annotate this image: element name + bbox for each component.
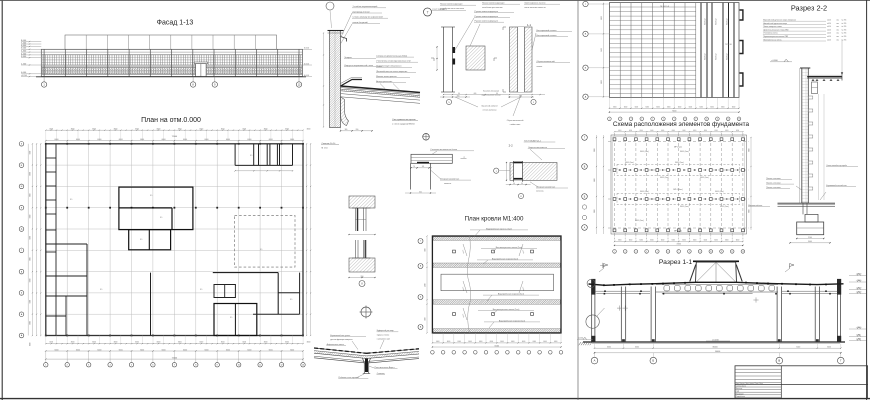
- svg-text:План на отм.0.000: План на отм.0.000: [141, 117, 201, 124]
- svg-text:8.5: 8.5: [230, 317, 232, 319]
- detail 1-1 leader labels: [536, 31, 572, 33]
- svg-text:Стяжка из цементного р-ра 30мм: Стяжка из цементного р-ра 30мм: [376, 56, 407, 58]
- svg-text:8.5: 8.5: [140, 239, 142, 241]
- svg-text:6000: 6000: [635, 347, 639, 349]
- section 1-1 monitor base line: [696, 281, 737, 283]
- svg-text:6000: 6000: [827, 347, 831, 349]
- svg-text:6000: 6000: [183, 349, 187, 351]
- svg-text:0.000: 0.000: [21, 72, 27, 74]
- svg-text:13: 13: [302, 365, 304, 367]
- detail 7 column: [443, 27, 445, 92]
- floor plan interior column marks: [45, 143, 47, 145]
- section 1-1 ground line: [583, 341, 845, 343]
- svg-text:9: 9: [217, 365, 218, 367]
- svg-text:Панель стеновая: Панель стеновая: [766, 182, 780, 184]
- svg-text:0.000: 0.000: [856, 335, 861, 337]
- svg-text:6000: 6000: [119, 139, 123, 141]
- svg-text:6000: 6000: [736, 240, 740, 242]
- svg-text:600: 600: [474, 93, 477, 95]
- section 1-1 columns: [620, 287, 622, 343]
- facade window band frame lines: [42, 54, 302, 56]
- section 1-1 grid bubbles: [594, 353, 596, 357]
- svg-text:7: 7: [174, 365, 175, 367]
- foundation plan sub-axis bubbles: [582, 205, 586, 209]
- svg-text:6000: 6000: [640, 130, 643, 132]
- foundation plan horizontal dashed grid: [608, 141, 749, 143]
- svg-text:6000: 6000: [140, 349, 144, 351]
- svg-text:6000: 6000: [736, 130, 739, 132]
- title block main divider: [735, 383, 868, 385]
- section 2-2 foundation steps: [805, 214, 818, 222]
- facade upper window band mullions: [42, 55, 44, 66]
- svg-text:-0.150: -0.150: [21, 75, 28, 77]
- roof plan break line: [467, 236, 471, 333]
- roof plan left dimension: [426, 236, 428, 333]
- title block lower rows: [735, 386, 781, 388]
- svg-text:6000: 6000: [183, 139, 187, 141]
- detail 7 corner symbols: [431, 58, 434, 61]
- svg-text:Несгораемый панели: Несгораемый панели: [537, 34, 557, 37]
- detail 8 dimension: [411, 167, 432, 169]
- svg-text:6000: 6000: [290, 349, 294, 351]
- svg-text:Водоприемные воронки (1шт): Водоприемные воронки (1шт): [499, 320, 526, 322]
- section 2-2 roof slab: [807, 74, 842, 76]
- svg-text:6000: 6000: [672, 240, 676, 242]
- svg-text:6000: 6000: [269, 139, 273, 141]
- svg-text:-0.150: -0.150: [578, 338, 583, 340]
- svg-text:6000: 6000: [710, 106, 714, 108]
- svg-text:ФМ-1 (3шт): ФМ-1 (3шт): [635, 219, 644, 222]
- svg-text:3000: 3000: [808, 241, 812, 243]
- svg-text:990: 990: [361, 276, 364, 278]
- svg-text:72000: 72000: [672, 110, 677, 112]
- svg-text:стойки тоже: стойки тоже: [510, 123, 521, 126]
- svg-text:6000: 6000: [714, 240, 718, 242]
- floor plan bottom mid partition wall: [150, 273, 152, 336]
- svg-text:3000: 3000: [157, 129, 161, 131]
- section 2-2 wall rungs: [808, 96, 813, 99]
- svg-text:Опорная монолитная: Опорная монолитная: [536, 186, 555, 188]
- svg-text:4.200: 4.200: [21, 53, 27, 55]
- svg-text:ФМ-1 (3шт): ФМ-1 (3шт): [700, 176, 709, 179]
- svg-text:2100: 2100: [808, 237, 812, 239]
- svg-text:Плита наварная стяжка: Плита наварная стяжка: [763, 26, 782, 28]
- svg-text:1-1: 1-1: [527, 23, 531, 27]
- svg-text:Смесь машбет-центробк: Смесь машбет-центробк: [826, 165, 847, 167]
- sheet border frame top: [0, 0, 870, 2]
- detail 1-1 bottom dim: [508, 96, 534, 98]
- svg-text:Опорная монолитная: Опорная монолитная: [440, 179, 459, 181]
- svg-text:72000: 72000: [494, 345, 499, 347]
- svg-text:3000: 3000: [92, 129, 96, 131]
- svg-text:6000: 6000: [650, 130, 653, 132]
- svg-text:Пароизоляционная пленка ПВХ: Пароизоляционная пленка ПВХ: [763, 36, 789, 38]
- svg-text:Засыпка песчаная: Засыпка песчаная: [483, 90, 499, 92]
- svg-text:6000: 6000: [119, 349, 123, 351]
- svg-text:Рабочая сталь горячая: Рабочая сталь горячая: [339, 377, 359, 379]
- top strip label block 3: [524, 3, 560, 5]
- roof plan labels: [470, 229, 528, 231]
- svg-text:Опорная монолитная: Опорная монолитная: [528, 147, 547, 149]
- floor plan central room block: [119, 187, 193, 230]
- detail 7 dimensions: [440, 96, 470, 98]
- svg-text:6000: 6000: [693, 240, 697, 242]
- svg-text:смеси битумной: смеси битумной: [353, 21, 368, 24]
- facade right level marks: [303, 48, 313, 50]
- svg-text:мм: мм: [837, 29, 839, 31]
- facade left elevation marks: [21, 41, 41, 43]
- svg-text:6000: 6000: [640, 240, 644, 242]
- svg-text:6000: 6000: [29, 193, 31, 197]
- svg-text:6000: 6000: [55, 349, 59, 351]
- wall plan detail lower dim: [349, 277, 375, 279]
- floor plan bottom-right rooms: [213, 272, 278, 274]
- svg-text:стенка колонны: стенка колонны: [483, 110, 497, 112]
- svg-text:6000: 6000: [29, 342, 31, 346]
- svg-text:1 слой из выравнивающей: 1 слой из выравнивающей: [353, 5, 378, 8]
- section 2-2 level mark: [770, 61, 792, 63]
- section 2-2 table leader line: [841, 40, 843, 75]
- svg-text:мм: мм: [837, 36, 839, 38]
- drain left labels: [330, 336, 366, 338]
- foundation plan left bubbles: [582, 135, 588, 141]
- svg-text:6000: 6000: [721, 106, 725, 108]
- svg-text:6.000: 6.000: [304, 75, 310, 77]
- svg-text:3000: 3000: [114, 342, 118, 344]
- svg-text:колонна: колонна: [444, 183, 452, 185]
- svg-text:3000: 3000: [135, 129, 139, 131]
- svg-text:9000: 9000: [601, 80, 603, 84]
- svg-text:6.000: 6.000: [304, 63, 310, 65]
- svg-text:Вентиляционные шахты (1шт): Вентиляционные шахты (1шт): [496, 247, 523, 249]
- svg-text:детали фракция мверхня: детали фракция мверхня: [330, 338, 352, 341]
- svg-text:МР (7шт): МР (7шт): [674, 147, 682, 149]
- roof plan left row bubbles: [418, 239, 423, 244]
- svg-text:плиты: плиты: [537, 66, 543, 68]
- svg-text:12: 12: [731, 251, 733, 253]
- svg-text:6000: 6000: [661, 240, 665, 242]
- svg-text:Забетонировать панели: Забетонировать панели: [524, 3, 545, 5]
- svg-text:8.5: 8.5: [150, 195, 152, 197]
- detail 7 leader labels: [474, 12, 514, 14]
- svg-text:90: 90: [458, 93, 460, 95]
- slab plan vertical grid: [608, 3, 610, 98]
- svg-text:8.5: 8.5: [100, 289, 102, 291]
- svg-text:мм: мм: [837, 20, 839, 22]
- svg-text:9000: 9000: [749, 209, 751, 213]
- svg-text:6000: 6000: [704, 130, 707, 132]
- section 1-1 tie lines: [596, 293, 650, 295]
- svg-text:3000: 3000: [221, 342, 225, 344]
- facade entrance door: [194, 62, 207, 64]
- slab plan outline: [609, 3, 739, 98]
- svg-text:ФМ-1 (3шт): ФМ-1 (3шт): [680, 205, 689, 208]
- svg-text:ПСЖ-12: ПСЖ-12: [705, 54, 707, 60]
- svg-text:Ручное компенсирующее: Ручное компенсирующее: [475, 21, 499, 23]
- svg-text:к стене наружной М1:10: к стене наружной М1:10: [392, 123, 415, 126]
- svg-text:9000: 9000: [594, 209, 596, 213]
- svg-text:ФМ-1 (3шт): ФМ-1 (3шт): [660, 176, 669, 179]
- title block outer frame: [735, 366, 868, 399]
- svg-text:10: 10: [710, 251, 712, 253]
- svg-text:3000: 3000: [285, 342, 289, 344]
- svg-text:Верхний слой рулонного ковра б: Верхний слой рулонного ковра битумным: [763, 19, 797, 22]
- detail wall parapet cap: [328, 30, 344, 32]
- svg-text:Буферный раствор: Буферный раствор: [377, 329, 394, 332]
- svg-text:Пароизоляция обмазочная: Пароизоляция обмазочная: [376, 66, 401, 68]
- section 1-1 ground hatch left: [579, 342, 581, 345]
- svg-text:6000: 6000: [447, 341, 451, 343]
- svg-text:90: 90: [513, 183, 515, 185]
- svg-text:6000: 6000: [607, 347, 611, 349]
- svg-text:Панель стеновая: Панель стеновая: [766, 187, 780, 189]
- svg-text:11: 11: [259, 365, 261, 367]
- svg-text:6000: 6000: [247, 349, 251, 351]
- svg-text:мм: мм: [837, 33, 839, 35]
- svg-text:Ручное компенсирующее: Ручное компенсирующее: [440, 4, 462, 6]
- foundation plan vertical dashed grid: [614, 133, 616, 239]
- svg-text:Керамзитобетонный пол: Керамзитобетонный пол: [826, 184, 846, 187]
- svg-text:ФМ-1 (3шт): ФМ-1 (3шт): [625, 161, 634, 164]
- svg-text:Фартук из оцинкованной стали: Фартук из оцинкованной стали: [344, 64, 373, 67]
- floor plan storage dashed outline: [235, 215, 296, 267]
- svg-text:Схема расположения элементов ф: Схема расположения элементов фундамента: [613, 121, 750, 128]
- detail 7 gost label: [432, 10, 466, 12]
- svg-text:6000: 6000: [29, 151, 31, 155]
- section 1-1 under-roof lines: [595, 290, 650, 292]
- svg-text:ФМ-1 (3шт): ФМ-1 (3шт): [675, 161, 684, 164]
- detail 7 hatched panel: [466, 46, 485, 70]
- roof layers table: [763, 20, 826, 22]
- title block vertical divider: [780, 366, 782, 399]
- svg-text:надежно уплотненная: надежно уплотненная: [481, 95, 500, 97]
- svg-text:6000: 6000: [76, 139, 80, 141]
- svg-text:6000: 6000: [554, 341, 558, 343]
- roof plan bottom dimensions: [432, 342, 561, 344]
- svg-text:3000: 3000: [307, 129, 311, 131]
- section 1-1 roof line right: [737, 282, 844, 284]
- svg-text:+7.200: +7.200: [856, 280, 862, 282]
- svg-text:6000: 6000: [55, 139, 59, 141]
- svg-text:Водоприемные воронки (3шт): Водоприемные воронки (3шт): [498, 294, 525, 296]
- detail bottom dimension: [341, 130, 373, 132]
- svg-text:после монтажа колонны: после монтажа колонны: [524, 7, 546, 9]
- floor plan left strip rooms: [55, 144, 57, 336]
- detail 1-1 lower labels: [536, 62, 570, 64]
- svg-text:12: 12: [280, 365, 282, 367]
- detail 2-2 left dim: [506, 163, 508, 181]
- svg-text:3000: 3000: [264, 342, 268, 344]
- svg-text:1.200: 1.200: [21, 63, 27, 65]
- detail title label: [392, 120, 418, 122]
- svg-text:ФМ-1 (3шт): ФМ-1 (3шт): [720, 205, 729, 208]
- slab plan bottom dims: [609, 107, 739, 109]
- svg-text:6000: 6000: [29, 279, 31, 283]
- detail section name: [321, 144, 339, 146]
- svg-text:6000: 6000: [29, 257, 31, 261]
- detail 2-2 lower labels: [536, 187, 568, 189]
- svg-text:рубероида пленки: рубероида пленки: [353, 11, 370, 13]
- section 1-1 right wall: [836, 279, 838, 342]
- svg-text:Б: Б: [652, 359, 654, 363]
- section 1-1 roof line left: [589, 282, 696, 285]
- foundation plan left dims: [596, 135, 598, 234]
- wall plan detail bubble: [359, 281, 365, 287]
- svg-text:Цементно-песчаная стяжка М50: Цементно-песчаная стяжка М50: [763, 29, 788, 31]
- svg-text:6000: 6000: [247, 139, 251, 141]
- detail 8 beam body: [411, 154, 452, 163]
- section 1-1 monitor wings: [690, 265, 696, 282]
- svg-text:3000: 3000: [178, 342, 182, 344]
- svg-text:6000: 6000: [29, 300, 31, 304]
- svg-text:6000: 6000: [656, 106, 660, 108]
- wall plan detail lower hatched block: [349, 258, 375, 272]
- svg-text:9000: 9000: [749, 148, 751, 152]
- floor plan column grid lines: [45, 144, 47, 336]
- svg-text:6000: 6000: [226, 139, 230, 141]
- roof plan grid bubbles: [431, 351, 435, 355]
- slab plan right edge brackets: [740, 10, 743, 20]
- drain waterproofing dashes: [314, 348, 367, 353]
- svg-text:+6.600: +6.600: [856, 288, 862, 290]
- svg-text:3000: 3000: [199, 342, 203, 344]
- svg-text:8.5: 8.5: [70, 199, 72, 201]
- svg-text:3000: 3000: [221, 129, 225, 131]
- svg-text:5480: 5480: [425, 283, 427, 287]
- section 2-2 foundation dims: [797, 238, 824, 240]
- svg-text:3000: 3000: [199, 129, 203, 131]
- foundation plan bottom dims: [615, 241, 743, 243]
- floor plan left row bubbles: [19, 142, 24, 147]
- svg-text:7: 7: [427, 10, 429, 14]
- section 2-2 inner column lines: [817, 94, 819, 200]
- svg-text:6.000: 6.000: [304, 48, 310, 50]
- svg-text:Образ монолитной: Образ монолитной: [507, 119, 524, 122]
- svg-text:Засыпной элемент: Засыпной элемент: [481, 105, 498, 108]
- svg-text:6000: 6000: [629, 240, 633, 242]
- svg-text:Фасад 1-13: Фасад 1-13: [157, 20, 194, 27]
- svg-text:6000: 6000: [624, 106, 628, 108]
- detail 8 label: [430, 150, 474, 152]
- foundation beam pads: [619, 169, 620, 170]
- svg-text:6000: 6000: [725, 240, 729, 242]
- svg-text:6000: 6000: [700, 106, 704, 108]
- slab plan right bay lines: [700, 3, 702, 98]
- facade ground line: [36, 76, 306, 78]
- svg-text:8.5: 8.5: [260, 249, 262, 251]
- svg-text:+1.200: +1.200: [856, 327, 862, 329]
- svg-text:6000: 6000: [672, 130, 675, 132]
- svg-text:4: 4: [646, 251, 647, 253]
- section 2-2 column under wall: [802, 203, 804, 214]
- svg-text:ФМ-1 (3шт): ФМ-1 (3шт): [680, 150, 689, 153]
- svg-text:Панель стеновая: Панель стеновая: [766, 178, 780, 180]
- roof plan upper volume outline: [441, 274, 554, 291]
- svg-text:8.5: 8.5: [160, 217, 162, 219]
- floor plan top dimension rows: [46, 129, 303, 131]
- svg-text:Сливная: Сливная: [377, 373, 385, 375]
- roof plan outer wall: [432, 236, 561, 333]
- sheet border frame bottom: [0, 398, 870, 400]
- section 2-2 floor slab: [778, 202, 836, 204]
- svg-text:ПСЖ-12: ПСЖ-12: [716, 54, 718, 60]
- section 1-1 roof panel dots: [603, 284, 605, 286]
- svg-text:6000: 6000: [646, 106, 650, 108]
- facade level lines: [41, 51, 302, 53]
- svg-text:6000: 6000: [97, 349, 101, 351]
- detail 2-2 gusset labels: [528, 148, 565, 150]
- slab plan left dimension: [602, 3, 604, 98]
- detail slab leader labels: [376, 56, 414, 58]
- floor plan right dimension strings: [306, 144, 308, 336]
- svg-text:3000: 3000: [242, 342, 246, 344]
- svg-text:Ручное компенсирующее: Ручное компенсирующее: [475, 16, 499, 18]
- floor plan bottom-left rooms: [46, 243, 87, 245]
- svg-text:6000: 6000: [468, 341, 472, 343]
- svg-text:Мелкие катки прогона: Мелкие катки прогона: [376, 76, 397, 78]
- svg-text:Сечение 1б-1б: Сечение 1б-1б: [322, 143, 337, 145]
- svg-text:6000: 6000: [205, 139, 209, 141]
- detail 2-2 dims: [506, 184, 531, 186]
- svg-text:мм: мм: [837, 26, 839, 28]
- sheet fold divider line: [577, 0, 579, 400]
- svg-text:мм: мм: [837, 39, 839, 41]
- svg-text:Ручное компенсирующее: Ручное компенсирующее: [475, 11, 499, 13]
- detail 2-2 bubble left: [494, 168, 499, 173]
- svg-text:6000: 6000: [635, 106, 639, 108]
- svg-text:6000: 6000: [732, 106, 736, 108]
- section 1-1 hollow core slab band: [656, 284, 778, 286]
- drain right labels: [377, 331, 399, 333]
- detail wall base curb: [341, 97, 349, 126]
- svg-text:Стяжка обмазку из асфальтовой: Стяжка обмазку из асфальтовой: [353, 16, 383, 19]
- svg-text:-0.150: -0.150: [856, 339, 861, 341]
- registration circle cross mark: [361, 307, 371, 317]
- svg-text:ГОСТ 536-АВ №1-1: ГОСТ 536-АВ №1-1: [524, 139, 541, 142]
- svg-text:МР-1 (5шт): МР-1 (5шт): [673, 189, 683, 191]
- svg-text:ПСЖ-12: ПСЖ-12: [727, 19, 729, 25]
- svg-text:Несгораемый панели: Несгораемый панели: [537, 29, 557, 32]
- svg-text:наплавленный: наплавленный: [377, 338, 390, 341]
- roof plan hatched band top: [433, 237, 560, 241]
- svg-text:Обрыв монолитной: Обрыв монолитной: [537, 60, 555, 63]
- svg-text:Нижний слой рулонного ковра: Нижний слой рулонного ковра: [763, 22, 787, 25]
- svg-text:А: А: [594, 359, 596, 363]
- detail wall section hatched wall: [330, 31, 341, 128]
- section 1-1 column base marks: [622, 339, 625, 342]
- svg-text:Утеплитель из минераловатных п: Утеплитель из минераловатных плит: [376, 61, 411, 63]
- svg-text:+8.000: +8.000: [856, 274, 862, 276]
- floor plan bottom-center rooms: [214, 304, 257, 336]
- svg-text:6000: 6000: [725, 130, 728, 132]
- floor plan grid bubbles bottom: [44, 363, 48, 367]
- slab plan slab joint lines: [609, 6, 696, 8]
- svg-text:ФМ-1 (3шт): ФМ-1 (3шт): [715, 190, 724, 193]
- section 1-1 left level flag: [577, 339, 593, 341]
- svg-text:3000: 3000: [92, 342, 96, 344]
- svg-text:7500: 7500: [425, 317, 427, 321]
- detail 8 column below: [410, 163, 412, 189]
- svg-text:6000: 6000: [76, 349, 80, 351]
- detail 1-1 hatched wall: [510, 27, 533, 92]
- svg-text:6000: 6000: [479, 341, 483, 343]
- sheet border frame left: [1, 0, 3, 400]
- detail 8 lower labels: [440, 179, 471, 181]
- svg-text:мм: мм: [837, 23, 839, 25]
- svg-text:9000: 9000: [594, 148, 596, 152]
- facade lower louver band: [42, 67, 302, 74]
- svg-text:6000: 6000: [162, 349, 166, 351]
